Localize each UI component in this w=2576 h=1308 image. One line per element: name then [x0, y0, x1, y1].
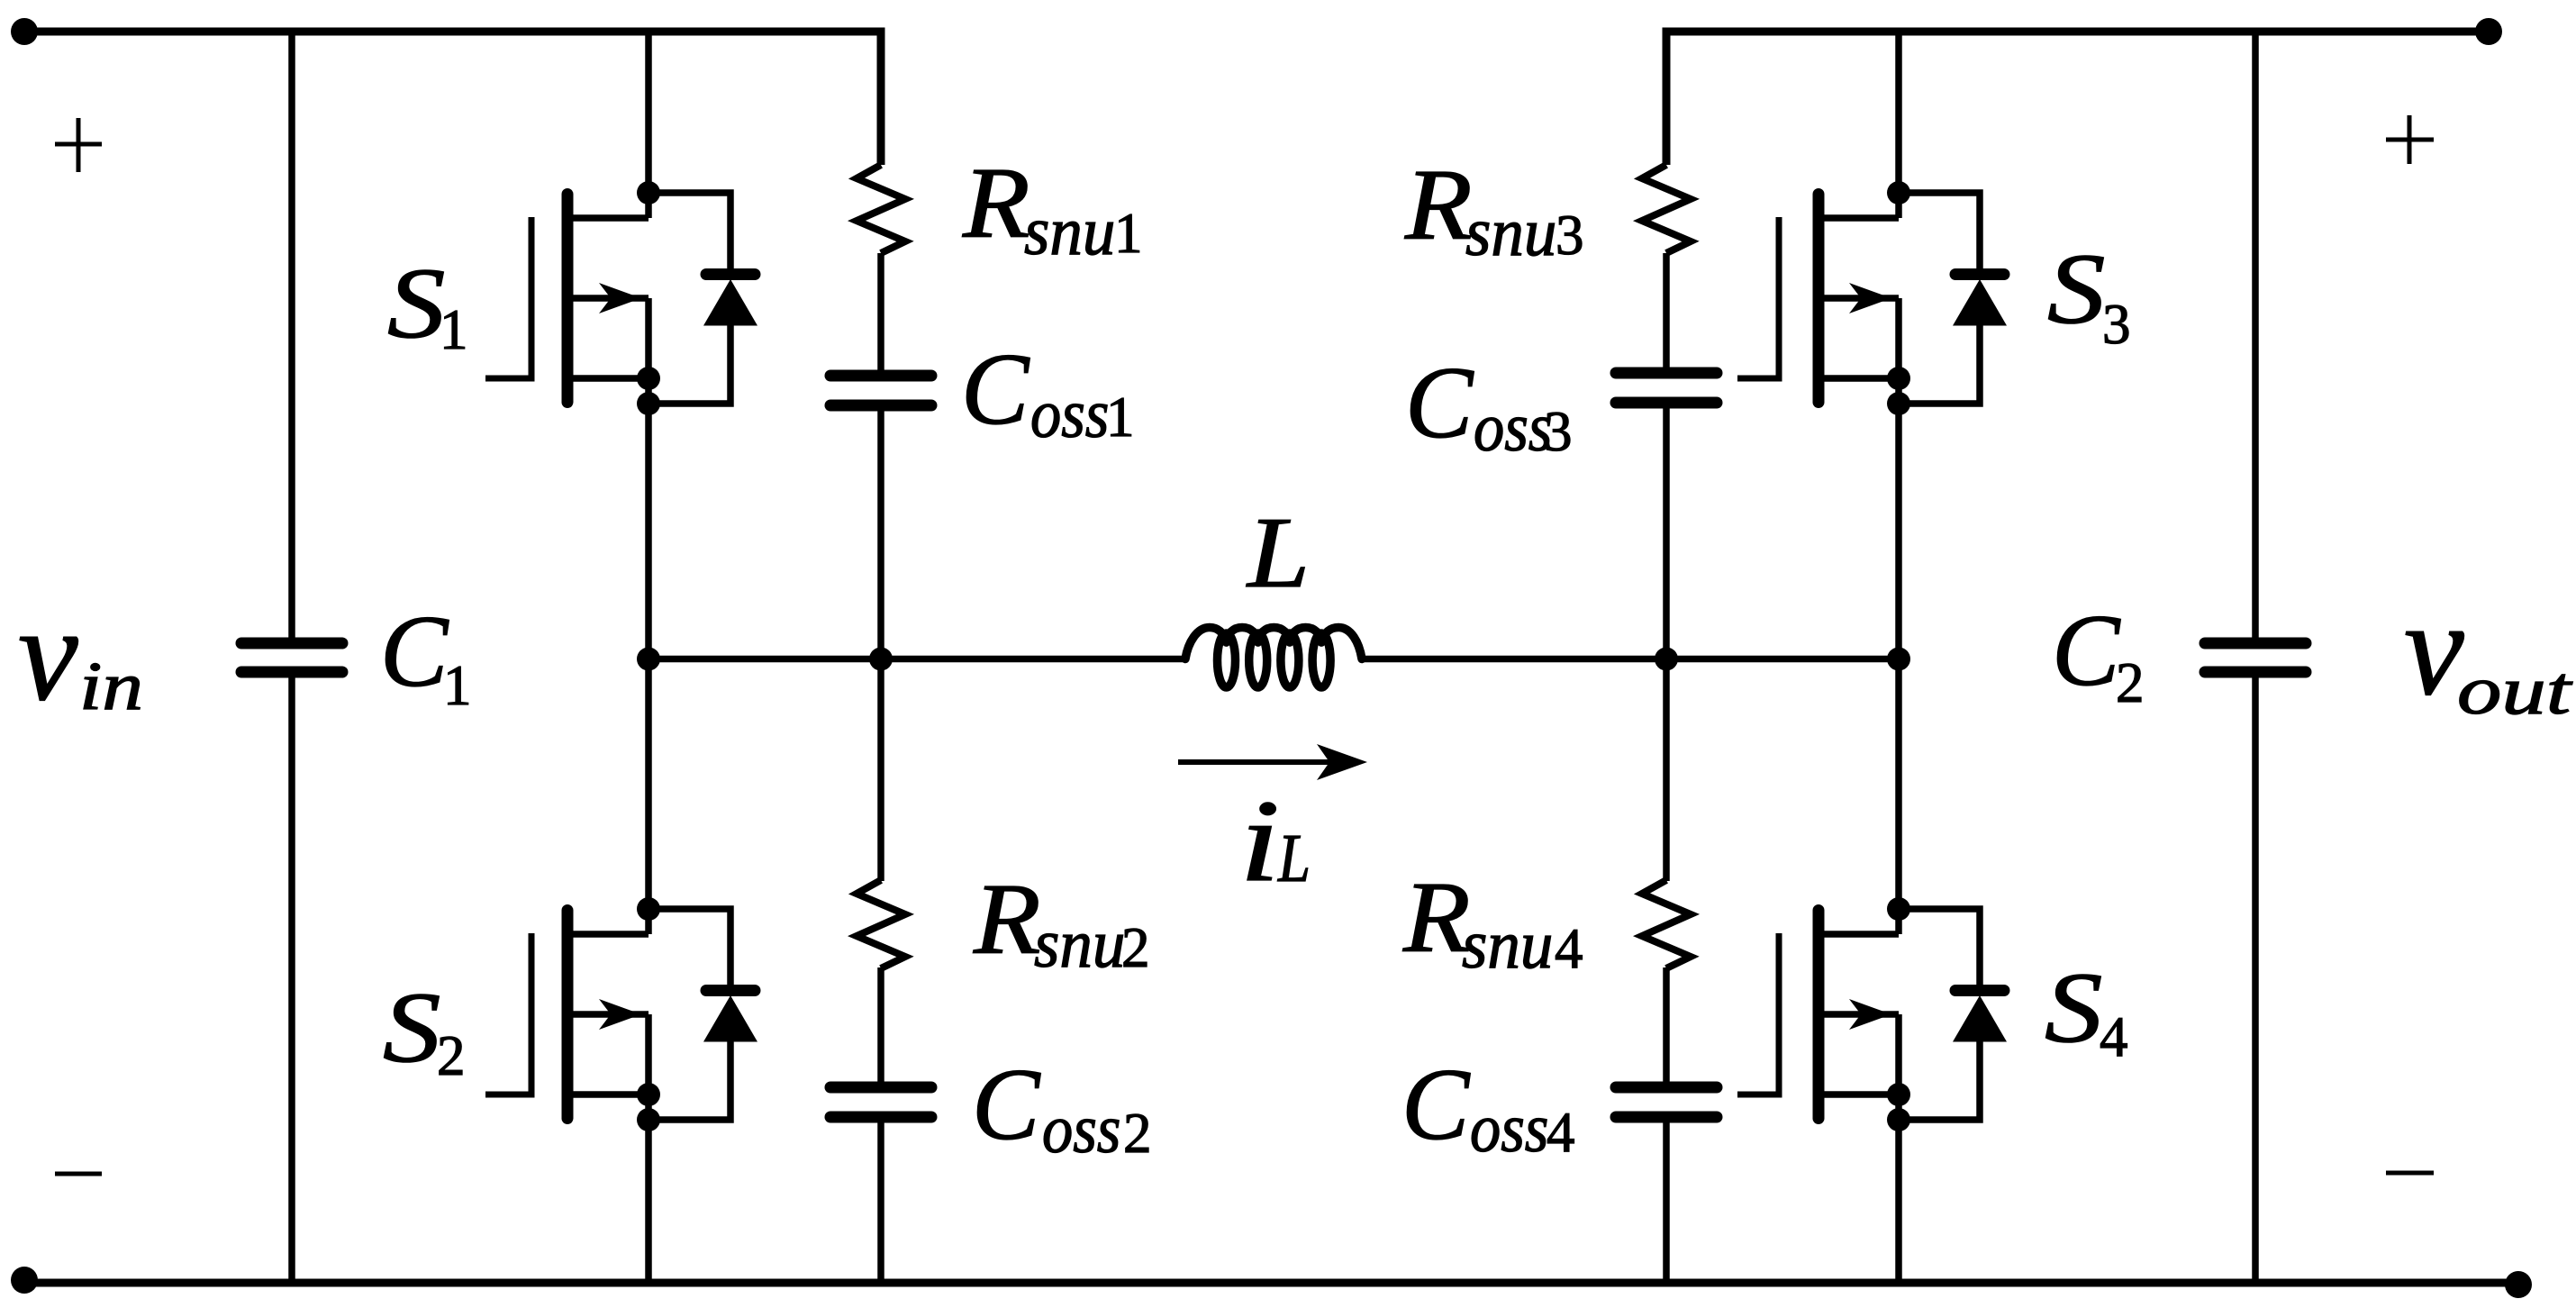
- label S1: [387, 248, 445, 359]
- svg-text:in: in: [79, 649, 143, 724]
- transistor S4 drain lead: [1819, 931, 1899, 938]
- svg-text:oss: oss: [1030, 377, 1109, 452]
- inductor current arrow iL: [1178, 759, 1333, 765]
- resistor Rsnu1: [857, 165, 905, 253]
- svg-text:3: 3: [1556, 204, 1584, 267]
- transistor S2 drain node dot: [637, 897, 660, 921]
- top rail left segment (input positive bus): [24, 32, 881, 165]
- svg-text:2: 2: [2116, 651, 2145, 714]
- wire C1 branch lower: [288, 672, 295, 1283]
- resistor Rsnu3: [1642, 165, 1691, 253]
- diode D4 branch wiring: [1899, 909, 1980, 986]
- minus sign output: [2386, 1171, 2434, 1176]
- label Rsnu4: [1402, 863, 1471, 974]
- transistor S1 channel bar: [562, 195, 574, 403]
- transistor S1 body lead with arrow: [567, 295, 649, 302]
- transistor S1 drain lead: [567, 214, 649, 222]
- wire S2 source down to bottom rail: [645, 1014, 652, 1283]
- wire snubber-4 resistor to capacitor: [1663, 967, 1670, 1088]
- label S3: [2047, 233, 2105, 345]
- wire snubber-3 capacitor to mid node and down to snubber-4 resistor: [1663, 402, 1670, 881]
- svg-text:C: C: [961, 333, 1030, 446]
- svg-text:2: 2: [437, 1024, 466, 1087]
- mid node dot at S3/S4 branch: [1887, 648, 1910, 671]
- wire snubber-4 capacitor to bottom rail: [1663, 1116, 1670, 1283]
- plus sign output: [2386, 115, 2434, 164]
- mid node dot at snubber-1/2 branch: [869, 648, 893, 671]
- svg-text:2: 2: [1121, 916, 1150, 979]
- svg-text:snu: snu: [1024, 195, 1115, 270]
- transistor S4 source node dots: [1887, 1083, 1910, 1106]
- label Rsnu3: [1404, 150, 1473, 261]
- svg-text:L: L: [1246, 497, 1310, 609]
- transistor S3 drain lead: [1819, 214, 1899, 222]
- svg-text:S: S: [387, 248, 445, 359]
- transistor S2 source lead: [567, 1091, 649, 1098]
- bottom rail (common negative bus): [24, 1279, 2518, 1287]
- wire snubber-3 branch between resistor and capacitor: [1663, 253, 1670, 374]
- mid-node wire right of inductor: [1360, 656, 1899, 663]
- mid-node wire left of inductor: [649, 656, 1187, 663]
- svg-text:C: C: [2052, 595, 2121, 707]
- wire C2 branch upper: [2252, 32, 2259, 644]
- diode D1 cathode bar: [706, 268, 755, 280]
- transistor S3 body lead with arrow: [1819, 295, 1899, 302]
- svg-text:oss: oss: [1470, 1091, 1548, 1167]
- capacitor C2: [2205, 638, 2306, 649]
- svg-text:out: out: [2457, 653, 2573, 730]
- label iL: [1239, 776, 1280, 905]
- capacitor Coss3: [1616, 368, 1717, 379]
- wire S1 drain from top rail: [645, 32, 652, 218]
- svg-text:1: 1: [1114, 202, 1143, 265]
- svg-text:3: 3: [2102, 293, 2131, 356]
- mid node dot at snubber-3/4 branch: [1655, 648, 1678, 671]
- svg-text:L: L: [1277, 821, 1311, 896]
- transistor S2 gate electrode: [485, 933, 531, 1095]
- svg-text:i: i: [1239, 776, 1280, 905]
- input terminal dot bottom-left: [11, 1267, 38, 1294]
- transistor S4 drain node dot: [1887, 897, 1910, 921]
- transistor S3 channel bar: [1813, 195, 1825, 403]
- diode D3 cathode bar: [1955, 268, 2004, 280]
- diode D3 branch wiring: [1899, 193, 1980, 270]
- diode D2 branch wiring: [649, 909, 730, 986]
- wire C2 branch lower: [2252, 672, 2259, 1283]
- svg-text:v: v: [18, 579, 78, 729]
- resistor Rsnu2: [857, 880, 905, 968]
- wire C1 branch upper: [288, 32, 295, 644]
- svg-text:R: R: [962, 149, 1030, 259]
- transistor S4 source lead: [1819, 1091, 1899, 1098]
- svg-text:C: C: [1405, 347, 1474, 459]
- svg-text:2: 2: [1123, 1102, 1152, 1165]
- transistor S2 body lead with arrow: [567, 1011, 649, 1018]
- diode D4 cathode bar: [1955, 985, 2004, 996]
- svg-text:S: S: [383, 972, 440, 1084]
- capacitor Coss4: [1616, 1082, 1717, 1094]
- wire S3 source / mid node / S4 drain: [1895, 298, 1902, 934]
- svg-text:4: 4: [2100, 1005, 2128, 1068]
- transistor S2 source node dots: [637, 1083, 660, 1106]
- diode D4 triangle: [1953, 995, 2007, 1042]
- input terminal dot top-left: [11, 18, 38, 45]
- diode D2 triangle: [703, 995, 757, 1042]
- diode D1 triangle: [703, 279, 757, 326]
- wire S3 drain from top rail: [1895, 32, 1902, 218]
- plus sign input: [55, 118, 102, 172]
- svg-text:1: 1: [440, 298, 468, 361]
- diode D2 cathode bar: [706, 985, 755, 996]
- capacitor Coss2: [830, 1082, 931, 1094]
- transistor S3 gate electrode: [1737, 217, 1779, 378]
- svg-text:snu: snu: [1462, 908, 1553, 984]
- svg-text:oss: oss: [1474, 390, 1552, 466]
- output terminal dot top-right: [2475, 18, 2502, 45]
- label S2: [383, 972, 440, 1084]
- transistor S3 drain node dot: [1887, 181, 1910, 204]
- transistor S4 gate electrode: [1737, 933, 1779, 1095]
- transistor S2 channel bar: [562, 911, 574, 1119]
- label Rsnu2: [973, 865, 1041, 976]
- svg-text:S: S: [2047, 233, 2105, 345]
- transistor S1 source node dots: [637, 367, 660, 390]
- svg-text:R: R: [973, 865, 1041, 976]
- diode D1 branch wiring: [649, 193, 730, 270]
- label S4: [2045, 952, 2102, 1064]
- svg-text:C: C: [972, 1049, 1041, 1161]
- wire S1 source / mid node / S2 drain: [645, 298, 652, 934]
- svg-text:snu: snu: [1465, 195, 1556, 271]
- capacitor C1: [241, 638, 342, 649]
- svg-text:4: 4: [1555, 917, 1583, 980]
- transistor S1 source lead: [567, 375, 649, 382]
- svg-text:S: S: [2045, 952, 2102, 1064]
- output terminal dot bottom-right: [2505, 1271, 2532, 1298]
- label L: [1246, 497, 1310, 609]
- transistor S1 gate electrode: [485, 217, 531, 378]
- top rail right segment (output positive bus): [1666, 32, 2489, 165]
- svg-text:snu: snu: [1034, 907, 1125, 983]
- wire snubber-1 branch between resistor and capacitor: [877, 253, 884, 377]
- capacitor Coss1: [830, 370, 931, 382]
- svg-text:C: C: [1401, 1049, 1471, 1161]
- svg-text:C: C: [380, 595, 449, 708]
- wire snubber-2 resistor to capacitor: [877, 967, 884, 1088]
- wire S4 source down to bottom rail: [1895, 1014, 1902, 1283]
- transistor S4 body lead with arrow: [1819, 1011, 1899, 1018]
- transistor S3 source lead: [1819, 375, 1899, 382]
- svg-text:1: 1: [443, 654, 472, 717]
- svg-text:v: v: [2404, 574, 2464, 723]
- transistor S1 drain node dot: [637, 181, 660, 204]
- svg-text:3: 3: [1544, 400, 1573, 463]
- resistor Rsnu4: [1642, 880, 1691, 968]
- svg-text:4: 4: [1547, 1101, 1575, 1164]
- wire snubber-2 capacitor to bottom rail: [877, 1116, 884, 1283]
- svg-text:oss: oss: [1042, 1092, 1120, 1167]
- svg-text:1: 1: [1106, 386, 1135, 449]
- wire snubber-1 capacitor to mid node and down to snubber-2 resistor: [877, 404, 884, 881]
- inductor L coil: [1185, 628, 1227, 659]
- mid node dot at S1/S2 branch: [637, 648, 660, 671]
- label Rsnu1: [962, 149, 1030, 259]
- svg-text:R: R: [1404, 150, 1473, 261]
- diode D3 triangle: [1953, 279, 2007, 326]
- transistor S3 source node dots: [1887, 367, 1910, 390]
- svg-text:R: R: [1402, 863, 1471, 974]
- transistor S4 channel bar: [1813, 911, 1825, 1119]
- transistor S2 drain lead: [567, 931, 649, 938]
- minus sign input: [55, 1172, 102, 1176]
